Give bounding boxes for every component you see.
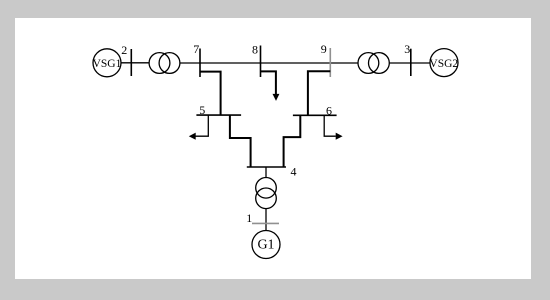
svg-text:3: 3 [404,42,410,56]
svg-text:2: 2 [121,43,127,57]
svg-text:8: 8 [252,43,258,57]
svg-text:G1: G1 [257,238,274,253]
svg-text:9: 9 [321,42,327,56]
svg-text:4: 4 [291,165,297,179]
svg-text:5: 5 [199,103,205,117]
svg-text:6: 6 [326,103,332,117]
svg-text:VSG2: VSG2 [429,58,458,70]
svg-text:7: 7 [193,42,199,56]
svg-text:1: 1 [246,211,252,225]
svg-text:VSG1: VSG1 [93,58,122,70]
